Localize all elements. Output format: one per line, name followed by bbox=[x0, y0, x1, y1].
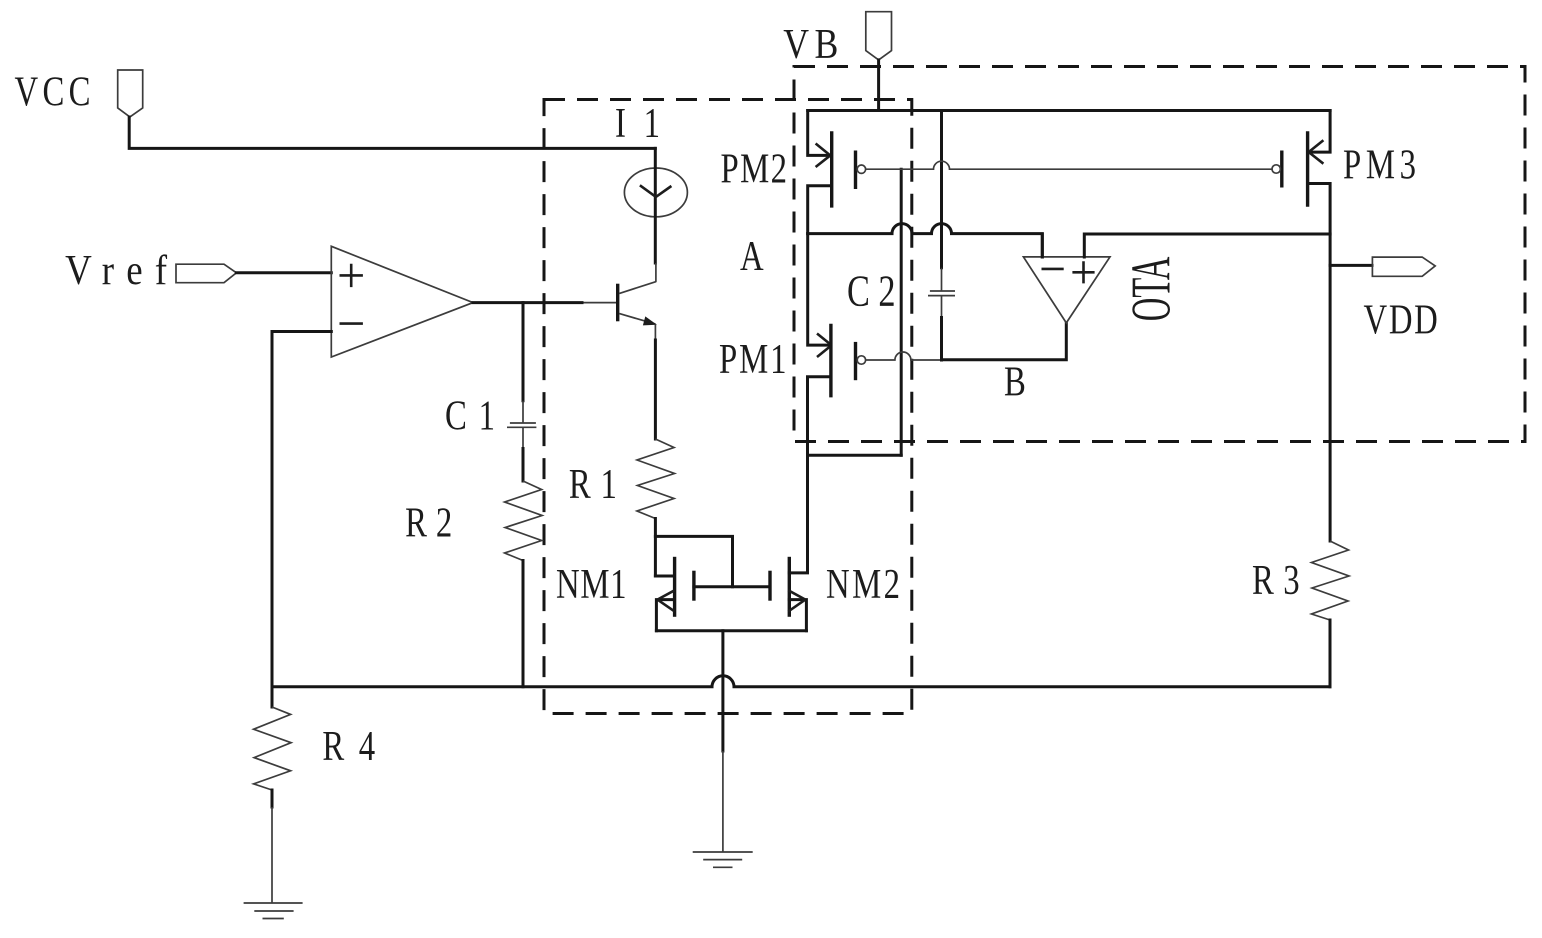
wire R3 to bottom rail bbox=[1329, 620, 1332, 687]
wire feedback to minus input bbox=[272, 332, 331, 687]
wire PM2 gate tie bbox=[900, 169, 903, 455]
current source I1 bbox=[624, 168, 687, 217]
wire R2 to bottom rail bbox=[522, 561, 525, 687]
transistor PM2 bbox=[808, 111, 830, 156]
right dashed box (output stage) bbox=[794, 67, 1525, 442]
resistor R1 bbox=[637, 439, 675, 519]
wire tail to ground bbox=[721, 631, 724, 751]
wire R4 to ground bbox=[271, 790, 274, 807]
svg-text:PM3: PM3 bbox=[1343, 142, 1416, 189]
node line drain NM2 / PM1 to PM2 gate bbox=[808, 454, 902, 457]
svg-text:VCC: VCC bbox=[15, 69, 91, 116]
wire VCC to I1 bbox=[129, 117, 655, 148]
wire VDD tap bbox=[1330, 264, 1372, 267]
wire OTA minus input bbox=[1041, 234, 1044, 257]
resistor R2 bbox=[505, 481, 542, 561]
resistor R4 bbox=[271, 687, 274, 707]
wire op-amp output to Q1 base bbox=[473, 301, 582, 304]
wire bottom rail (with hop over ground tail) bbox=[272, 676, 1330, 687]
wire R1 to NM1 drain bbox=[654, 519, 657, 577]
wire C2 branch from top rail bbox=[940, 111, 943, 268]
wire C1 to R2 bbox=[522, 449, 525, 482]
wire OTA plus input / A to PM3 drain bbox=[1084, 234, 1330, 257]
transistor PM1 bbox=[808, 234, 830, 346]
terminal Vref bbox=[176, 264, 236, 283]
terminal VCC bbox=[118, 70, 143, 117]
svg-text:B: B bbox=[1004, 359, 1026, 406]
transistor NM2 bbox=[768, 571, 771, 601]
wire top rail bbox=[808, 109, 1330, 112]
svg-text:NM1: NM1 bbox=[556, 561, 627, 608]
svg-text:PM2: PM2 bbox=[721, 146, 788, 193]
wire diode-connect NM1 gate bbox=[655, 536, 732, 586]
wire gate bus PM2-PM3 (with hop) bbox=[865, 161, 1272, 169]
op-amp U1 bbox=[331, 246, 473, 357]
transistor Q1 (NPN BJT) bbox=[582, 302, 616, 304]
wire PM1 gate to OTA output (with hop) bbox=[865, 352, 941, 360]
transistor NM1 bbox=[655, 575, 673, 578]
wire NM source rail bbox=[656, 629, 806, 632]
wire VB down bbox=[877, 60, 880, 111]
left dashed box (bandgap core stage) bbox=[544, 100, 912, 714]
svg-text:PM1: PM1 bbox=[719, 336, 786, 383]
terminal VB bbox=[866, 12, 892, 60]
OTA amplifier bbox=[1023, 257, 1110, 323]
svg-text:OTA: OTA bbox=[1121, 256, 1183, 321]
capacitor C1 bbox=[507, 401, 536, 449]
transistor PM3 bbox=[1309, 111, 1330, 153]
ground G2 bbox=[244, 903, 303, 919]
wire NM1-NM2 gate line bbox=[694, 585, 770, 588]
resistor R3 bbox=[1312, 541, 1350, 620]
wire op-amp output branch to C1 bbox=[522, 303, 525, 401]
node A wire (with hops) bbox=[808, 224, 1043, 257]
ground G1 bbox=[693, 852, 753, 867]
svg-text:NM2: NM2 bbox=[826, 561, 900, 608]
wire Vref to op-amp bbox=[236, 271, 331, 274]
wire Q1 emitter to R1 bbox=[654, 324, 656, 340]
capacitor C2 bbox=[928, 268, 955, 318]
svg-text:A: A bbox=[740, 233, 764, 280]
svg-text:VDD: VDD bbox=[1364, 297, 1438, 344]
terminal VDD bbox=[1372, 257, 1435, 276]
